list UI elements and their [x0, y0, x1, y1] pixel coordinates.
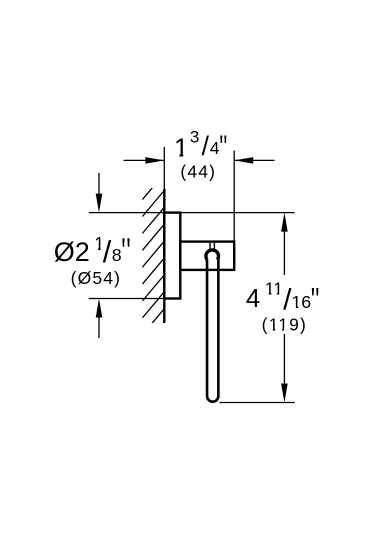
svg-text:16: 16 [291, 292, 311, 312]
svg-text:/: / [202, 131, 210, 161]
svg-text:Ø2: Ø2 [54, 237, 90, 267]
svg-text:4: 4 [246, 283, 260, 313]
svg-text:(Ø54): (Ø54) [71, 268, 121, 288]
svg-text:8: 8 [112, 245, 122, 265]
svg-text:(44): (44) [180, 162, 216, 182]
svg-text:4: 4 [210, 138, 220, 158]
svg-text:(119): (119) [262, 314, 307, 334]
svg-text:1: 1 [174, 132, 188, 162]
svg-text:/: / [103, 235, 112, 269]
svg-text:11: 11 [265, 278, 283, 298]
svg-text:3: 3 [190, 127, 199, 146]
